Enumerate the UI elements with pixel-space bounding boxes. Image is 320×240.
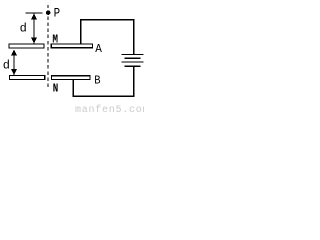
wire from plate A up — [80, 19, 81, 43]
wire right vertical down to battery — [133, 19, 134, 54]
plate lower-left — [9, 76, 44, 80]
battery — [122, 54, 144, 67]
upper distance arrow d — [31, 14, 37, 44]
lower distance arrow d — [11, 50, 17, 75]
wire from battery down — [133, 67, 134, 96]
svg-text:A: A — [95, 42, 102, 56]
wire from plate B down — [73, 80, 74, 97]
plate B lower-right — [52, 76, 90, 80]
svg-text:d: d — [3, 58, 10, 72]
plate A upper-right — [51, 44, 92, 48]
svg-text:B: B — [94, 74, 100, 88]
svg-text:manfen5.com: manfen5.com — [75, 104, 144, 113]
wire top horizontal — [80, 19, 134, 20]
point P dot — [46, 10, 51, 15]
svg-text:N: N — [53, 82, 59, 95]
upper reference bar — [25, 12, 42, 13]
dashed trajectory line — [47, 5, 48, 8]
wire bottom horizontal — [73, 96, 135, 97]
svg-text:P: P — [54, 6, 61, 21]
svg-text:d: d — [20, 22, 27, 36]
plate M upper-left — [9, 44, 44, 48]
